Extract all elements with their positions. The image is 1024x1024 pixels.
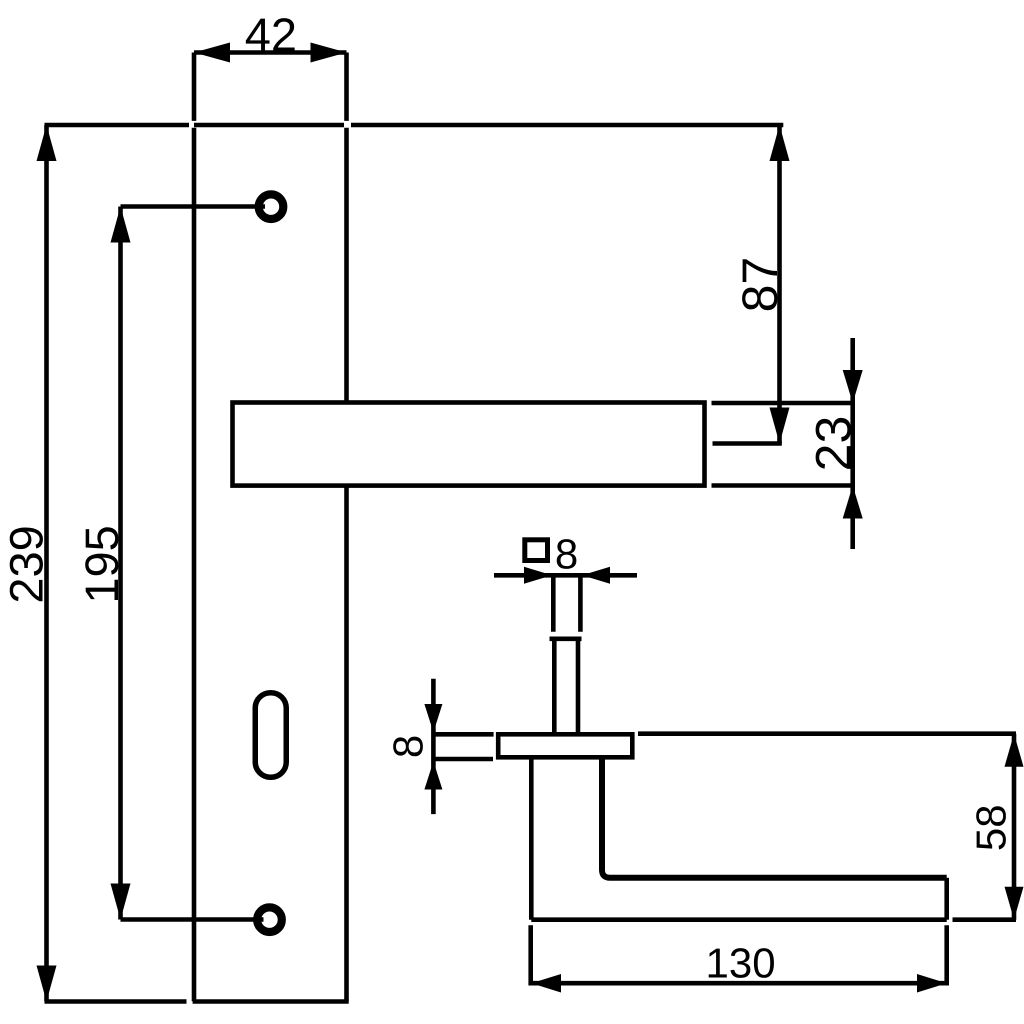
svg-text:58: 58	[968, 804, 1015, 851]
extension line handle bottom for 23	[712, 483, 856, 488]
arrowhead 239 bottom	[37, 966, 57, 1002]
arrowhead 42 left	[194, 43, 230, 63]
extension line handle top for 23	[712, 401, 856, 406]
svg-text:8: 8	[385, 735, 432, 758]
backplate left edge + 42 extension	[192, 53, 197, 1002]
arrowhead 8 spindle right	[582, 567, 610, 584]
grip bottom edge	[531, 917, 946, 922]
rosette extension top for 8	[436, 732, 494, 737]
arrowhead 130 right	[917, 974, 947, 993]
arrowhead 8 rosette lower	[424, 761, 442, 789]
dimension 195 line	[118, 207, 123, 920]
svg-text:130: 130	[706, 940, 776, 987]
dimension 23 line	[850, 338, 855, 549]
spindle stem right line	[578, 575, 583, 632]
handle lever front view	[233, 403, 705, 486]
leader to bottom screw hole	[121, 917, 264, 922]
arrowhead 8 rosette upper	[424, 704, 442, 732]
keyhole	[255, 693, 286, 778]
bottom screw hole	[257, 907, 282, 932]
grip top extension line for 58	[638, 731, 1016, 736]
svg-text:239: 239	[0, 525, 53, 603]
top screw hole	[259, 194, 284, 219]
svg-text:23: 23	[806, 416, 862, 472]
dimension 8 spindle line	[494, 573, 637, 578]
rosette plate side view	[498, 734, 632, 757]
extension line left for 130	[528, 925, 533, 985]
dimension 130 line	[531, 981, 947, 986]
neck cap line	[550, 636, 582, 641]
square spindle symbol	[525, 540, 548, 561]
dimension 8 rosette line	[431, 679, 436, 814]
rosette extension bottom for 8	[435, 757, 493, 762]
svg-text:87: 87	[732, 257, 788, 313]
leader to top screw hole	[121, 204, 266, 209]
arrowhead 195 top	[111, 207, 131, 243]
dimension 87 line	[777, 125, 782, 444]
arrowhead 195 bottom	[111, 884, 131, 920]
arrowhead 87 bottom	[770, 408, 790, 444]
arrowhead 58 top	[1005, 734, 1024, 767]
arrowhead 8 spindle left	[524, 567, 552, 584]
arrowhead 42 right	[311, 43, 347, 63]
backplate bottom edge + 239 extension	[45, 999, 349, 1004]
extension line right for 130	[944, 925, 949, 985]
neck left line	[552, 639, 557, 733]
svg-text:42: 42	[245, 8, 297, 61]
arrowhead 239 top	[37, 125, 57, 161]
grip right end edge	[944, 878, 949, 920]
svg-text:195: 195	[75, 525, 128, 603]
neck right line	[576, 639, 581, 733]
grip inner edge with fillet	[602, 757, 947, 878]
grip outer left edge	[529, 757, 534, 919]
backplate right edge + 42 extension	[344, 53, 349, 1002]
arrowhead 87 top	[770, 125, 790, 161]
spindle stem left line	[551, 575, 556, 632]
dimension 58 line	[1012, 734, 1017, 920]
dimension 42 line	[194, 50, 347, 55]
arrowhead 130 left	[531, 974, 561, 993]
arrowhead 58 bottom	[1005, 887, 1024, 920]
top horizontal line (plate top + extensions to 239 and 87 dims)	[45, 123, 784, 128]
arrowhead 23 lower	[843, 486, 863, 519]
handle centerline extension for 87	[713, 441, 782, 446]
arrowhead 23 upper	[843, 370, 863, 403]
dimension 239 line	[44, 125, 49, 1002]
grip bottom extension for 58	[953, 917, 1017, 922]
svg-text:8: 8	[555, 531, 578, 578]
